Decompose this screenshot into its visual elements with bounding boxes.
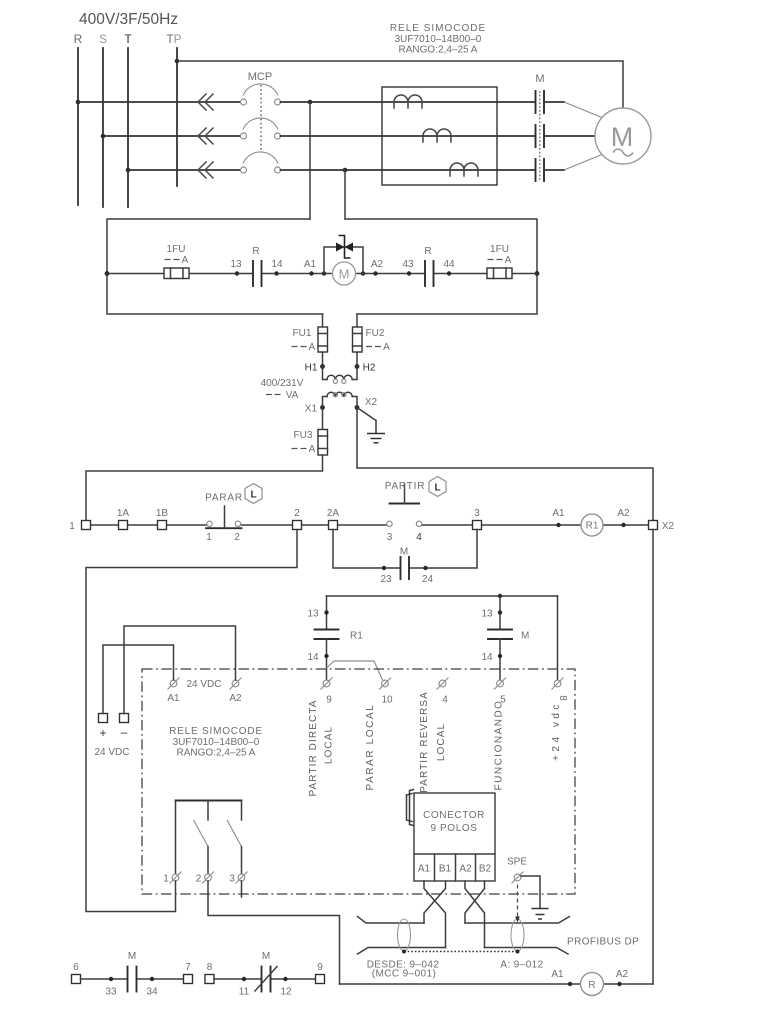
- svg-text:1: 1: [206, 532, 212, 543]
- terminal 7: [184, 962, 193, 984]
- svg-text:3UF7010–14B00–0: 3UF7010–14B00–0: [173, 737, 260, 748]
- hexagon L PARTIR: [429, 477, 446, 497]
- svg-text:RANGO:2,4–25 A: RANGO:2,4–25 A: [399, 45, 478, 56]
- node feed M13: [498, 594, 502, 598]
- svg-text:PARAR LOCAL: PARAR LOCAL: [365, 704, 376, 791]
- svg-text:9 POLOS: 9 POLOS: [431, 823, 478, 834]
- svg-text:2: 2: [234, 532, 240, 543]
- SIMOCODE enclosure box: [142, 669, 575, 894]
- svg-text:PARTIR REVERSA: PARTIR REVERSA: [419, 691, 430, 793]
- svg-text:8: 8: [207, 962, 213, 973]
- terminal 3: [473, 508, 482, 530]
- terminal 6: [72, 962, 81, 984]
- svg-text:RELE SIMOCODE: RELE SIMOCODE: [169, 726, 263, 737]
- svg-text:M: M: [128, 951, 136, 962]
- svg-text:LOCAL: LOCAL: [324, 726, 335, 764]
- svg-text:SPE: SPE: [507, 857, 527, 868]
- svg-text:A1: A1: [551, 969, 564, 980]
- wire R coil row: [340, 983, 654, 985]
- svg-text:43: 43: [402, 259, 414, 270]
- svg-text:3: 3: [229, 874, 235, 885]
- svg-text:12: 12: [280, 987, 292, 998]
- svg-text:1FU: 1FU: [490, 244, 509, 255]
- svg-text:1: 1: [163, 874, 169, 885]
- wire coil loop left: [107, 219, 323, 314]
- node coil right: [535, 271, 540, 276]
- svg-text:4: 4: [416, 532, 422, 543]
- svg-text:7: 7: [185, 962, 191, 973]
- node L2 tap: [101, 134, 106, 139]
- pushbutton PARTIR: [385, 481, 426, 543]
- cable right screen: [511, 919, 524, 951]
- ground SPE: [521, 876, 549, 919]
- wire coil line: [107, 273, 537, 275]
- coil R: [581, 973, 604, 996]
- svg-text:TP: TP: [166, 32, 181, 46]
- svg-text:S: S: [99, 32, 107, 46]
- node H2: [355, 363, 376, 374]
- svg-text:9: 9: [326, 695, 332, 706]
- svg-text:3: 3: [387, 532, 393, 543]
- svg-text:+: +: [99, 726, 106, 740]
- wire L1 left: [78, 101, 241, 103]
- svg-text:3: 3: [474, 508, 480, 519]
- svg-text:1B: 1B: [156, 508, 169, 519]
- terminal SPE: [507, 857, 527, 884]
- fuse FU3: [292, 408, 328, 456]
- svg-text:3UF7010–14B00–0: 3UF7010–14B00–0: [395, 34, 482, 45]
- relay label block top: [390, 23, 486, 56]
- svg-text:A2: A2: [616, 969, 629, 980]
- svg-text:24 VDC: 24 VDC: [94, 747, 129, 758]
- svg-text:R: R: [424, 246, 431, 257]
- svg-text:R: R: [74, 32, 83, 46]
- svg-text:H1: H1: [305, 363, 318, 374]
- node X2: [355, 397, 378, 410]
- svg-text:H2: H2: [363, 363, 376, 374]
- wire L1 drop: [309, 102, 311, 219]
- node A2 coil: [371, 259, 384, 276]
- wire terminal2 to relay common: [86, 530, 297, 912]
- shield bond dotted: [402, 950, 520, 954]
- node L1 drop: [308, 100, 313, 105]
- relay label block box: [169, 726, 263, 759]
- wire L3 left: [128, 169, 241, 171]
- wire minus to A2: [124, 626, 236, 714]
- svg-text:A: 9–012: A: 9–012: [500, 960, 543, 971]
- svg-text:LOCAL: LOCAL: [436, 723, 447, 761]
- svg-text:X2: X2: [662, 521, 675, 532]
- transformer T1 secondary: [323, 392, 358, 407]
- contact M 23-24 seal-in: [333, 530, 477, 586]
- svg-text:RANGO:2,4–25 A: RANGO:2,4–25 A: [177, 748, 256, 759]
- svg-text:6: 6: [73, 962, 79, 973]
- svg-text:8: 8: [557, 695, 568, 701]
- terminal 9b: [316, 962, 325, 984]
- connector clip bracket: [407, 790, 414, 826]
- contactor M pole 3: [536, 159, 545, 181]
- svg-text:+24 vdc: +24 vdc: [551, 701, 562, 761]
- contactor M pole 1: [536, 91, 545, 113]
- svg-text:PARTIR DIRECTA: PARTIR DIRECTA: [308, 699, 319, 796]
- motor M1: [595, 108, 651, 164]
- terminal 1: [69, 521, 90, 533]
- suppressor branch: [322, 236, 365, 276]
- svg-text:1FU: 1FU: [167, 244, 186, 255]
- wire motor lead 3: [544, 155, 602, 171]
- coil R1: [581, 514, 603, 536]
- svg-text:RELE SIMOCODE: RELE SIMOCODE: [390, 23, 486, 34]
- node A1 R1: [552, 508, 565, 527]
- terminal 2A: [327, 508, 340, 530]
- terminal A1 box: [167, 678, 180, 705]
- svg-text:VA: VA: [286, 390, 299, 401]
- terminal 10 box: [379, 678, 393, 706]
- terminal 8b: [205, 962, 214, 984]
- contact R 13-14: [230, 246, 283, 286]
- svg-text:A: A: [309, 342, 316, 353]
- cable left screen: [398, 919, 411, 951]
- svg-text:A2: A2: [617, 508, 630, 519]
- contact M 33-34: [81, 951, 184, 998]
- wire L1 mid: [281, 101, 536, 103]
- wire A1 pair cross: [424, 881, 446, 948]
- svg-text:14: 14: [307, 652, 319, 663]
- node A2 R1: [617, 508, 630, 527]
- svg-text:2: 2: [294, 508, 300, 519]
- relay contact column 3: [227, 801, 248, 885]
- terminal 4 box: [437, 678, 449, 706]
- svg-text:13: 13: [230, 259, 242, 270]
- svg-text:1A: 1A: [117, 508, 130, 519]
- contact M 13-14: [481, 596, 529, 680]
- contactor M pole 2: [536, 125, 545, 147]
- node coil left: [105, 271, 110, 276]
- terminal 1A: [117, 508, 130, 530]
- svg-text:24 VDC: 24 VDC: [186, 679, 221, 690]
- svg-text:X1: X1: [305, 404, 318, 415]
- breaker MCP pole 3: [241, 152, 281, 173]
- svg-text:A1: A1: [167, 693, 180, 704]
- svg-text:–: –: [121, 725, 128, 739]
- svg-text:400/231V: 400/231V: [261, 378, 304, 389]
- wire contact2 to R coil: [208, 881, 340, 984]
- relay contact bar: [176, 800, 242, 802]
- chevron marks L3: [198, 162, 213, 178]
- bus R: [77, 48, 79, 205]
- wire motor lead 1: [544, 102, 602, 118]
- contactor M link: [539, 91, 541, 181]
- wire plus to A1: [103, 645, 174, 714]
- svg-text:FU3: FU3: [294, 430, 313, 441]
- svg-text:14: 14: [271, 259, 283, 270]
- bus S: [102, 48, 104, 207]
- terminal A2 box: [229, 678, 242, 705]
- wire TP to motor top: [177, 61, 623, 109]
- wire X2 to terminal X2: [357, 408, 653, 521]
- relay contact column 1: [163, 801, 181, 885]
- svg-text:FU2: FU2: [366, 328, 385, 339]
- breaker MCP pole 1: [241, 84, 281, 105]
- breaker MCP pole 2: [241, 118, 281, 139]
- svg-text:PARAR: PARAR: [205, 493, 243, 504]
- node A1 R: [551, 969, 572, 986]
- node L3 tap: [126, 168, 131, 173]
- contact R 43-44: [402, 246, 455, 286]
- jumper 9 to 10: [327, 661, 383, 680]
- svg-text:R: R: [252, 246, 259, 257]
- svg-text:(MCC 9–001): (MCC 9–001): [372, 969, 436, 980]
- svg-text:L: L: [434, 483, 440, 494]
- svg-text:PROFIBUS DP: PROFIBUS DP: [567, 937, 639, 948]
- fuse FU2: [353, 314, 391, 367]
- svg-text:L: L: [250, 490, 256, 501]
- svg-text:PARTIR: PARTIR: [385, 481, 426, 492]
- svg-text:A: A: [505, 255, 512, 266]
- fuse 1FU right: [487, 244, 512, 279]
- svg-text:FUNCIONANDO: FUNCIONANDO: [494, 700, 505, 791]
- svg-text:A2: A2: [459, 864, 472, 875]
- svg-text:B2: B2: [479, 864, 492, 875]
- svg-text:4: 4: [442, 695, 448, 706]
- node L1 tap: [76, 100, 81, 105]
- svg-text:33: 33: [105, 987, 117, 998]
- SPE shield link dashed: [515, 885, 520, 923]
- svg-text:R: R: [588, 980, 595, 991]
- svg-text:T: T: [124, 32, 132, 46]
- wire A2 pair cross: [465, 881, 485, 948]
- hexagon L PARAR: [245, 484, 262, 504]
- node A2 R: [616, 969, 629, 986]
- wire L3 mid: [281, 169, 536, 171]
- wire L2 mid: [281, 135, 536, 137]
- svg-text:2: 2: [196, 874, 202, 885]
- svg-text:44: 44: [443, 259, 455, 270]
- svg-text:24: 24: [422, 574, 434, 585]
- node TP tap: [175, 59, 180, 64]
- node L3 drop: [343, 168, 348, 173]
- svg-text:10: 10: [381, 695, 393, 706]
- svg-text:MCP: MCP: [248, 71, 272, 83]
- wire control row: [86, 524, 653, 526]
- svg-text:A: A: [182, 255, 189, 266]
- svg-text:A2: A2: [371, 259, 384, 270]
- node H1: [305, 363, 325, 374]
- CT L2: [423, 129, 451, 142]
- chevron marks L2: [198, 128, 213, 144]
- svg-text:M: M: [400, 547, 408, 558]
- relay contact column 2: [194, 801, 215, 885]
- fuse 1FU left: [164, 244, 189, 279]
- CT L3: [450, 163, 478, 176]
- fuse FU1: [292, 314, 328, 367]
- terminal X2: [649, 521, 675, 533]
- cable right pair: [465, 917, 570, 955]
- svg-text:R1: R1: [350, 631, 363, 642]
- svg-text:B1: B1: [439, 864, 452, 875]
- svg-text:X2: X2: [365, 397, 378, 408]
- contact M 11-12 NC: [214, 951, 316, 998]
- svg-text:11: 11: [239, 987, 250, 998]
- svg-text:A1: A1: [304, 259, 317, 270]
- wire L3 drop: [344, 170, 346, 219]
- wire coil loop right: [345, 219, 537, 314]
- breaker MCP link: [260, 85, 262, 152]
- svg-text:CONECTOR: CONECTOR: [423, 810, 485, 821]
- svg-text:A1: A1: [552, 508, 565, 519]
- coil M: [333, 262, 356, 285]
- terminal plus 24VDC: [99, 714, 108, 741]
- chevron marks L1: [198, 94, 213, 110]
- wire FU3 to terminal 1: [86, 455, 323, 521]
- transformer T1 primary: [323, 367, 358, 384]
- svg-text:400V/3F/50Hz: 400V/3F/50Hz: [79, 11, 178, 28]
- label 400/231V VA: [261, 378, 304, 401]
- wire contact1 down: [175, 881, 177, 912]
- svg-text:A1: A1: [418, 864, 431, 875]
- wire feed to terminal 8: [557, 596, 559, 680]
- cable left pair: [358, 917, 446, 955]
- node X1: [305, 404, 325, 415]
- terminal 5 box: [494, 678, 506, 706]
- svg-text:9: 9: [317, 962, 323, 973]
- svg-text:13: 13: [307, 609, 319, 620]
- svg-text:FU1: FU1: [293, 328, 312, 339]
- svg-text:23: 23: [380, 574, 392, 585]
- terminal 2: [293, 508, 302, 530]
- label DESDE: [367, 960, 440, 980]
- svg-text:34: 34: [146, 987, 158, 998]
- terminal minus 24VDC: [120, 714, 129, 740]
- svg-text:2A: 2A: [327, 508, 340, 519]
- svg-text:A: A: [383, 342, 390, 353]
- node A1 coil: [304, 259, 317, 276]
- svg-text:M: M: [535, 73, 544, 85]
- wire motor lead 2: [544, 135, 595, 137]
- svg-text:M: M: [262, 951, 270, 962]
- CT L1: [394, 95, 422, 108]
- svg-text:M: M: [339, 267, 350, 282]
- contact R1 13-14: [307, 596, 363, 680]
- CT box SIMOCODE: [382, 87, 497, 185]
- wire contact3 stub: [241, 881, 243, 897]
- wire feed line 13s: [327, 595, 558, 597]
- wire L2 left: [103, 135, 241, 137]
- svg-text:M: M: [611, 122, 634, 152]
- svg-text:A: A: [309, 444, 316, 455]
- svg-text:1: 1: [69, 521, 75, 532]
- svg-text:A2: A2: [229, 693, 242, 704]
- svg-text:R1: R1: [586, 521, 599, 532]
- wire X2 rail down: [652, 530, 654, 985]
- pushbutton PARAR: [205, 493, 243, 544]
- ground at X2: [357, 408, 385, 443]
- svg-text:13: 13: [481, 609, 493, 620]
- svg-text:M: M: [521, 631, 529, 642]
- bus T: [127, 48, 129, 207]
- bus TP: [176, 48, 178, 186]
- phase labels R S T TP: [74, 32, 182, 46]
- terminal 8 box: [552, 678, 569, 702]
- svg-text:14: 14: [481, 652, 493, 663]
- terminal 1B: [156, 508, 169, 530]
- terminal 9 box: [321, 678, 333, 706]
- connector box CONECTOR 9 POLOS: [414, 793, 495, 881]
